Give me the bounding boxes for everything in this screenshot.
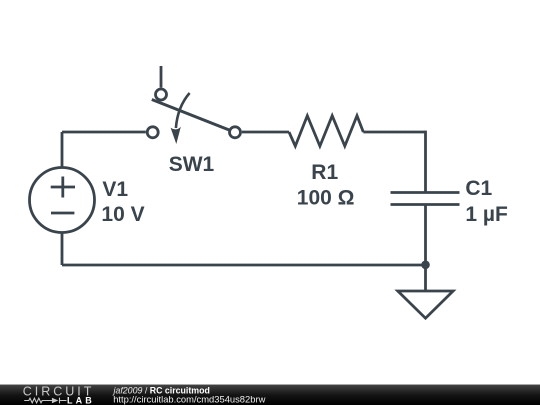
logo diode triangle [52, 398, 59, 404]
switch SW1 top stub wire [160, 66, 163, 88]
wire corner down to C1 [424, 131, 427, 193]
V1 minus sign [51, 212, 74, 215]
wire C1 to bottom [424, 205, 427, 266]
SW1 lever [152, 100, 229, 130]
ground [398, 291, 453, 318]
SW1 top terminal [156, 89, 167, 100]
capacitor C1 bottom plate [391, 203, 460, 206]
wire top from V1 to switch [62, 131, 146, 134]
wire to ground [424, 265, 427, 291]
svg-text:http://circuitlab.com/cmd354us: http://circuitlab.com/cmd354us82brw [113, 393, 265, 404]
wire V1 top stub [61, 132, 64, 167]
footer bar [0, 385, 540, 405]
V1 plus sign [51, 177, 75, 198]
SW1 actuation arrow arc [176, 93, 190, 128]
node junction dot [421, 261, 430, 270]
wire R1 to corner [363, 131, 425, 134]
footer bar top highlight [0, 384, 540, 385]
svg-text:LAB: LAB [67, 396, 95, 405]
switch arrowhead [171, 127, 181, 144]
logo resistor-diode glyph [24, 398, 66, 404]
SW1 right terminal [230, 127, 241, 138]
voltage source V1 [30, 168, 95, 233]
wire switch to R1 [242, 131, 289, 134]
capacitor C1 top plate [391, 191, 460, 194]
resistor R1 [289, 116, 363, 146]
wire V1 bottom stub [61, 234, 64, 266]
SW1 left terminal [147, 127, 158, 138]
wire bottom [62, 264, 426, 267]
